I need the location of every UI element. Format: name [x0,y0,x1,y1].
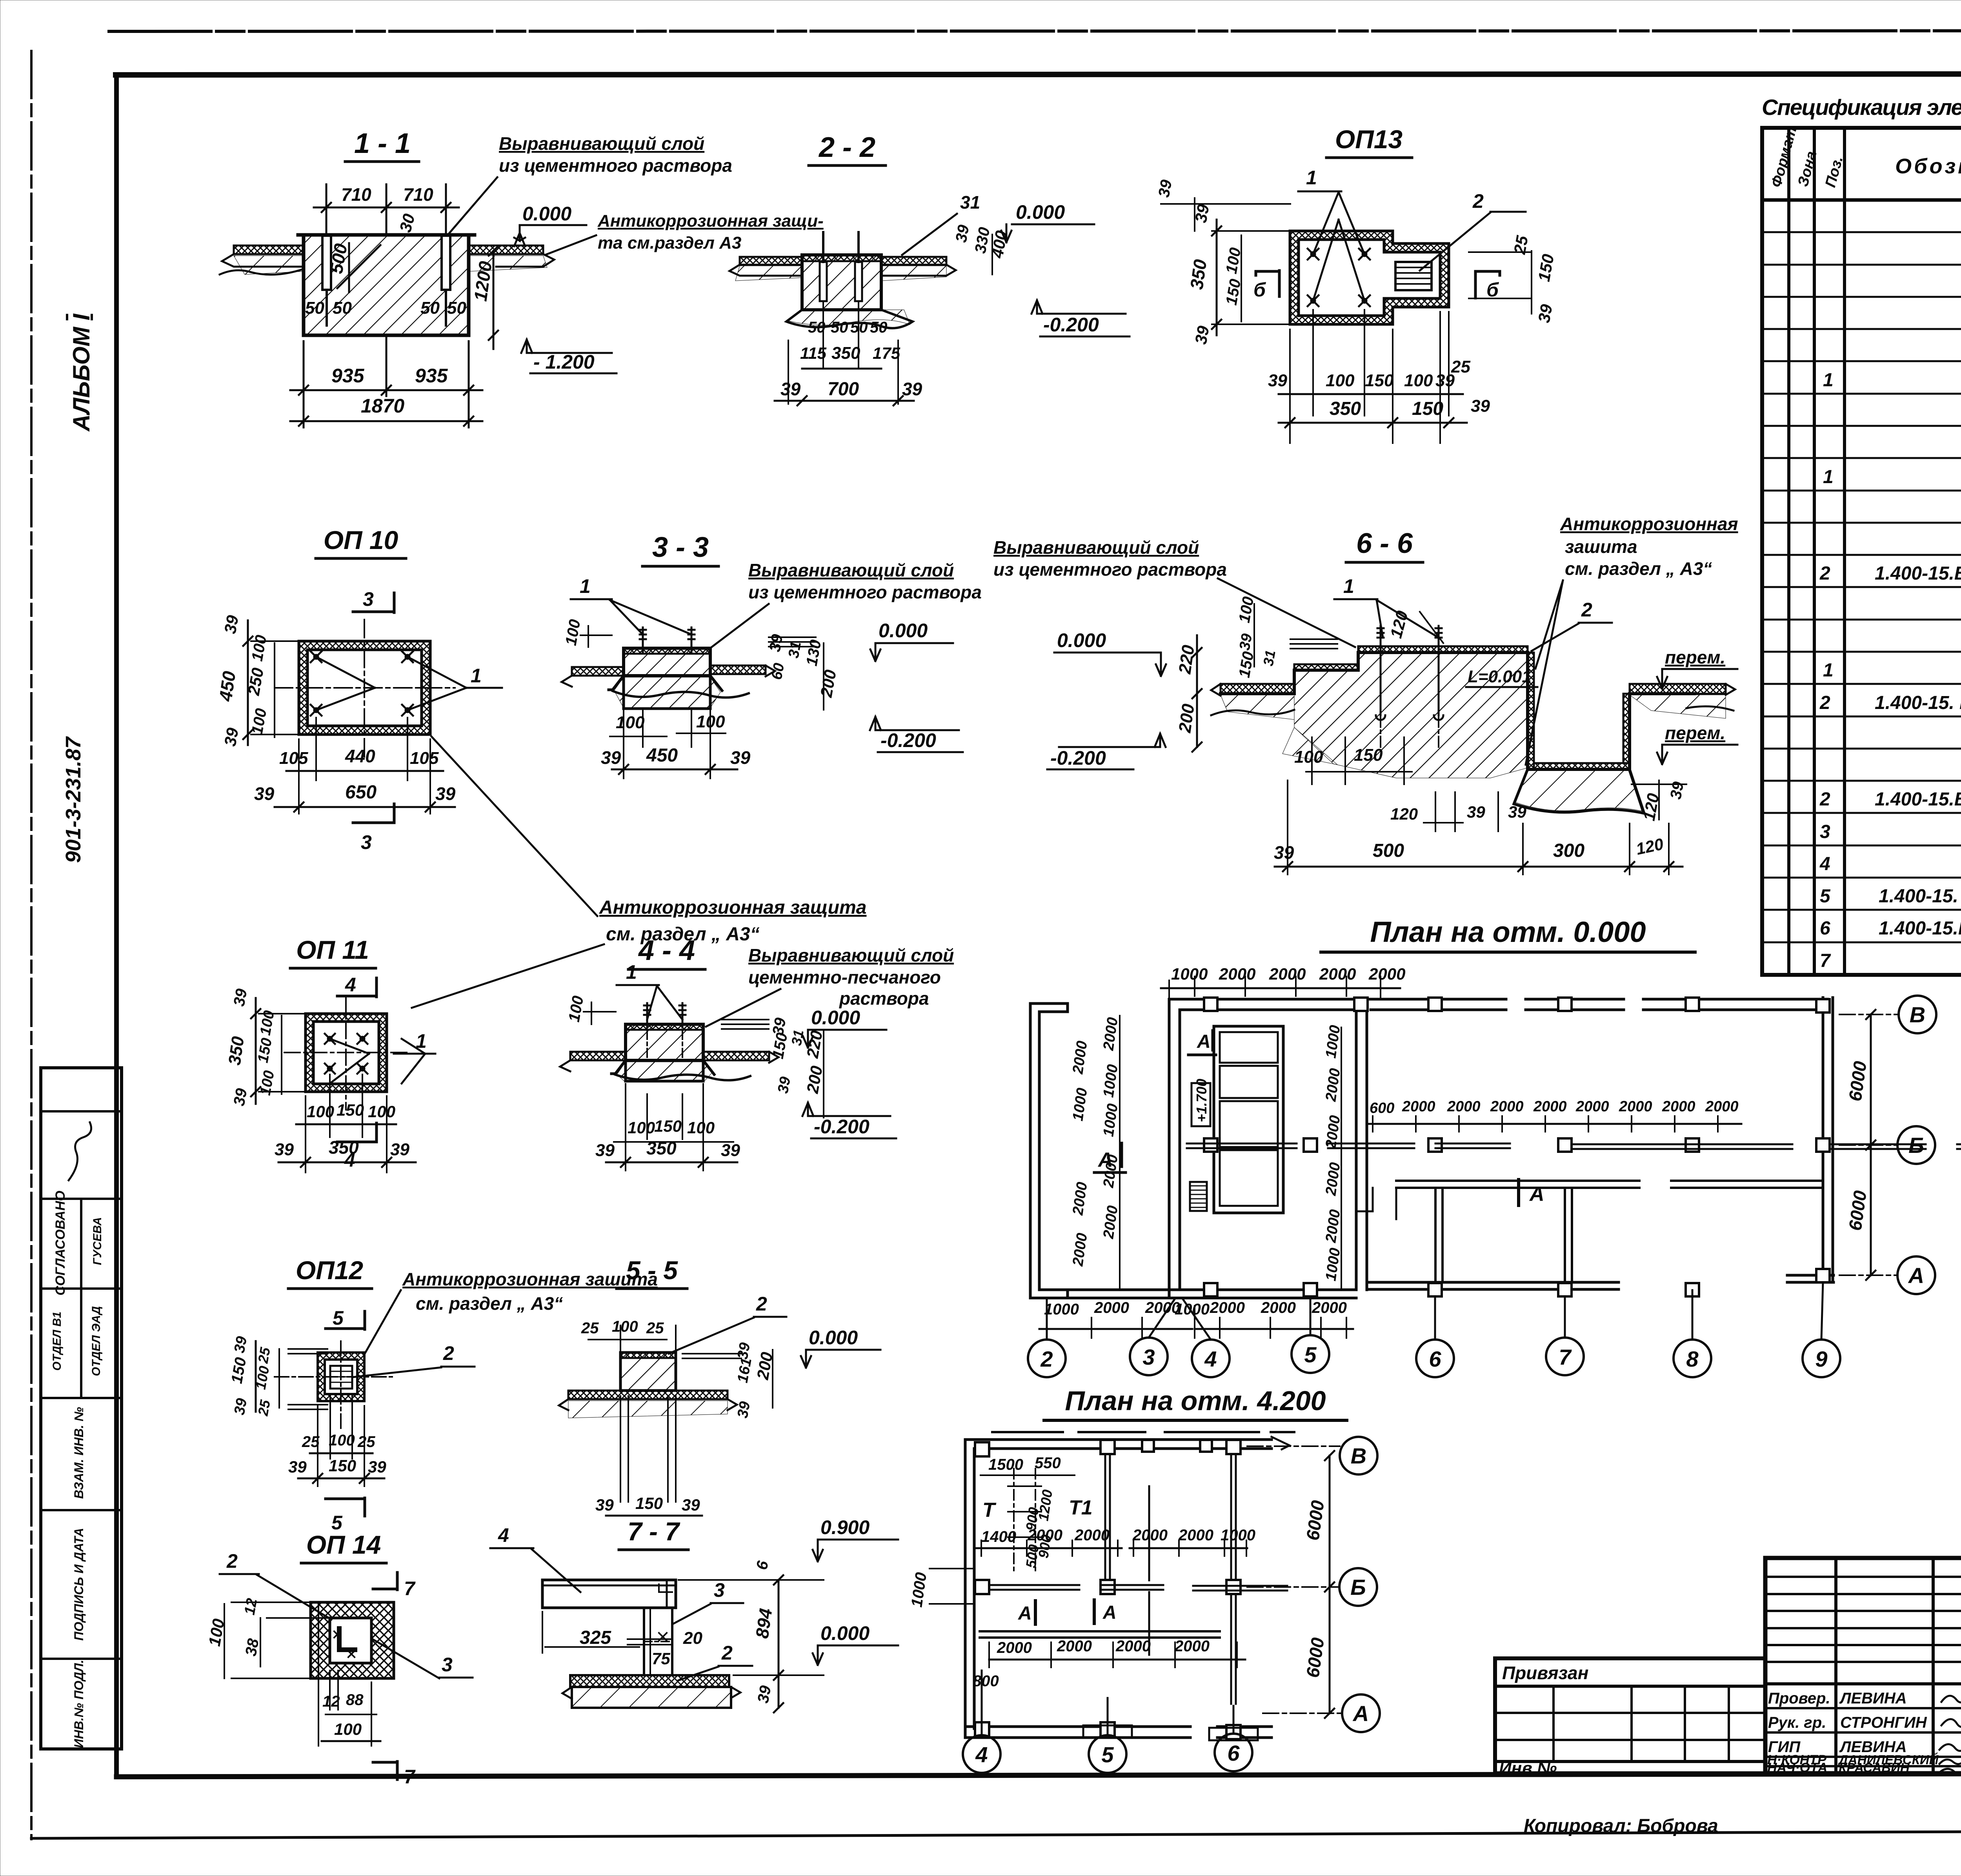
svg-text:5: 5 [333,1307,344,1329]
svg-text:2: 2 [226,1550,238,1572]
detail 2-2 anchor bolts [820,262,827,301]
svg-text:39: 39 [435,783,456,804]
svg-text:39: 39 [595,1141,615,1160]
svg-text:39: 39 [1535,303,1556,324]
svg-text:2000: 2000 [1094,1299,1129,1316]
svg-text:3: 3 [1820,822,1830,842]
detail OP11 left dims [255,998,257,1104]
plan 4.200 base plates bottom [1083,1725,1132,1738]
detail 5-5 pedestal [620,1352,676,1391]
plan 0.000 B-row partition right [1671,1180,1823,1182]
svg-text:935: 935 [331,365,365,387]
svg-text:1400: 1400 [981,1528,1016,1545]
svg-text:200: 200 [1175,702,1198,734]
svg-text:ОП13: ОП13 [1335,125,1403,154]
svg-text:СОГЛАСОВАНО: СОГЛАСОВАНО [53,1191,68,1295]
detail 4-4 pedestal [626,1024,703,1060]
plan 4.200 bottom wall [965,1725,1190,1728]
svg-text:1 - 1: 1 - 1 [354,128,411,159]
svg-text:1000: 1000 [1175,1301,1210,1318]
plan 0.000 columns row B [1204,1138,1830,1152]
detail OP11 leader 1 [330,1039,425,1083]
svg-text:0.900: 0.900 [820,1516,870,1538]
svg-text:Выравнивающий слой: Выравнивающий слой [499,133,704,154]
svg-text:4: 4 [498,1524,509,1546]
svg-text:-0.200: -0.200 [814,1116,870,1138]
svg-text:39: 39 [221,614,242,635]
svg-text:КРАСАВИН: КРАСАВИН [1839,1760,1910,1775]
detail 1-1 anchor bolt left [322,236,331,290]
svg-text:550: 550 [1035,1454,1061,1472]
svg-text:901-3-231.87: 901-3-231.87 [62,736,85,863]
svg-text:цементно-песчаного: цементно-песчаного [748,967,941,987]
svg-text:2000: 2000 [1132,1527,1168,1544]
svg-text:0.000: 0.000 [879,620,928,642]
svg-text:25: 25 [646,1320,664,1337]
svg-text:Провер.: Провер. [1768,1690,1830,1707]
svg-text:25: 25 [1451,357,1470,376]
svg-text:ОТДЕЛ В1: ОТДЕЛ В1 [51,1312,64,1371]
svg-text:из цементного раствора: из цементного раствора [499,155,732,176]
svg-text:39: 39 [775,1076,794,1095]
plan 0.000 inner vertical dim chains [1119,1016,1121,1290]
svg-text:2000: 2000 [1219,965,1255,983]
svg-text:2000: 2000 [1368,965,1405,983]
svg-text:Выравнивающий слой: Выравнивающий слой [748,560,954,580]
svg-text:105: 105 [410,749,439,768]
svg-text:2000: 2000 [1402,1098,1435,1115]
detail 6-6 ground breaks [1211,684,1294,715]
svg-text:100: 100 [1326,371,1355,390]
plan 4.200 partition wall [980,1630,1220,1632]
detail 6-6 pit lower body [1514,769,1644,813]
svg-text:0.000: 0.000 [522,203,571,225]
detail 6-6 mid dims 100 150 [1311,737,1313,784]
svg-text:38: 38 [242,1637,262,1657]
detail 4-4 floor slab right [703,1052,769,1060]
svg-text:5: 5 [1101,1742,1114,1767]
svg-text:2000: 2000 [1027,1527,1062,1544]
svg-text:ИНВ.№ ПОДЛ.: ИНВ.№ ПОДЛ. [72,1660,86,1748]
detail 2-2 pedestal [802,255,881,310]
svg-text:7: 7 [1559,1345,1572,1369]
plan 4.200 grid circles bottom [963,1735,1001,1773]
svg-text:А: А [1097,1149,1113,1171]
svg-text:ОП 11: ОП 11 [296,935,369,964]
svg-text:100: 100 [307,1102,334,1121]
svg-text:1000: 1000 [1221,1527,1255,1544]
svg-text:2000: 2000 [997,1639,1032,1656]
detail 4-4 dim 100 left [591,1002,592,1024]
detail 4-4 elevation -0.200 [802,1103,813,1116]
svg-text:39: 39 [231,987,251,1007]
detail 4-4 base block [611,1060,714,1081]
svg-text:1.400-15. В1. 120- 05: 1.400-15. В1. 120- 05 [1875,693,1961,713]
svg-text:450: 450 [215,670,239,703]
svg-text:А: А [1018,1603,1032,1624]
svg-text:0.000: 0.000 [1057,629,1106,651]
sheet edge bottom [31,1830,1961,1838]
svg-text:2000: 2000 [1619,1098,1652,1115]
plan 0.000 columns row A [1204,1269,1830,1296]
svg-text:В: В [1910,1002,1925,1027]
svg-text:39: 39 [902,379,922,399]
svg-text:650: 650 [345,782,377,803]
detail 3-3 bolts [640,627,646,652]
detail OP10 bottom dims [299,718,430,814]
svg-text:перем.: перем. [1665,647,1725,667]
svg-text:7: 7 [404,1578,416,1600]
detail 4-4 right rotated dims [722,1020,769,1029]
detail OP14 inner angle piece [338,1627,356,1651]
svg-text:Спецификация элементов фундаме: Спецификация элементов фундаментов под о… [1762,95,1961,120]
svg-text:8: 8 [1686,1347,1699,1371]
detail 1-1 dim 935 935 [290,337,482,427]
svg-text:1: 1 [580,575,591,597]
svg-text:39: 39 [231,1397,251,1416]
svg-text:Т1: Т1 [1069,1496,1093,1519]
svg-text:935: 935 [415,365,448,387]
leader from note to OP11 [412,944,604,1008]
svg-text:4: 4 [1204,1347,1217,1371]
plan 0.000 circle leaders [1047,1282,1823,1340]
svg-text:В: В [1351,1443,1366,1468]
svg-text:ЛЕВИНА: ЛЕВИНА [1839,1690,1907,1707]
detail 2-2 floor slab right [881,257,946,265]
plan 4.200 B-row beams [989,1585,1287,1586]
svg-text:АЛЬБОМ I: АЛЬБОМ I [68,313,95,432]
svg-text:Обозначение: Обозначение [1895,155,1961,178]
detail 6-6 bottom chain [1287,780,1288,874]
svg-text:2: 2 [1472,190,1484,212]
svg-text:300: 300 [1553,840,1584,861]
title block outer [1765,1558,1961,1773]
svg-text:2000: 2000 [1312,1299,1347,1316]
svg-text:39: 39 [755,1684,775,1704]
svg-text:2: 2 [1819,789,1830,810]
privyazan block [1495,1658,1765,1773]
svg-text:50: 50 [870,319,888,336]
svg-text:2000: 2000 [1057,1638,1092,1655]
svg-text:350: 350 [225,1035,248,1066]
svg-text:4 - 4: 4 - 4 [638,935,695,966]
detail OP12 section mark 5 bottom [326,1498,365,1516]
svg-text:СТРОНГИН: СТРОНГИН [1840,1714,1927,1731]
svg-text:2: 2 [756,1293,767,1315]
detail 6-6 left rotated dims [1196,635,1198,747]
svg-text:39: 39 [1274,842,1294,863]
svg-text:6 - 6: 6 - 6 [1356,528,1413,559]
svg-text:115: 115 [800,344,827,362]
svg-text:150: 150 [1412,398,1443,419]
svg-text:Б: Б [1908,1133,1924,1158]
svg-text:+1.700: +1.700 [1193,1079,1210,1122]
svg-text:100: 100 [687,1118,715,1137]
plan 0.000 left detached wall [1030,1003,1068,1298]
svg-text:Антикоррозионная защи-: Антикоррозионная защи- [597,211,824,231]
plan 4.200 inner stems [1105,1454,1110,1580]
svg-text:600: 600 [1370,1100,1394,1116]
spec rows [1819,204,1961,974]
svg-text:39: 39 [275,1140,294,1159]
svg-text:2: 2 [1040,1347,1053,1371]
svg-text:350: 350 [646,1138,677,1158]
svg-text:1: 1 [416,1030,427,1052]
svg-text:2000: 2000 [1662,1098,1695,1115]
detail 1-1 elevation -1.200 [521,340,532,353]
svg-text:25: 25 [255,1346,273,1365]
plan 0.000 right wall [1822,998,1825,1282]
svg-text:3: 3 [714,1579,725,1601]
detail OP12 centerlines [275,1376,392,1378]
detail OP12 left dims [255,1341,257,1412]
detail OP13 bolts [1308,249,1370,306]
detail 3-3 pedestal [624,648,710,676]
svg-text:2000: 2000 [1319,965,1356,983]
detail OP11 centerlines [284,1052,408,1053]
svg-text:39: 39 [1268,371,1287,390]
svg-text:100: 100 [334,1720,362,1738]
svg-text:6: 6 [1429,1347,1441,1371]
plan 0.000 grid centerline B row [1839,1144,1897,1146]
sheet edge left [30,51,33,1839]
svg-text:105: 105 [279,749,308,768]
detail 1-1 floor slab left [234,245,304,254]
svg-text:5 - 5: 5 - 5 [626,1256,678,1285]
svg-text:39: 39 [1508,803,1526,821]
plan 0.000 main left wall [1168,999,1171,1298]
detail 7-7 ground [572,1687,731,1708]
frame top [116,74,1961,75]
svg-text:2000: 2000 [1261,1299,1296,1316]
svg-text:1.400-15.В1.420-03: 1.400-15.В1.420-03 [1879,918,1961,939]
svg-text:39: 39 [368,1458,386,1476]
svg-text:100: 100 [616,713,645,732]
svg-text:710: 710 [341,184,371,205]
svg-text:31: 31 [960,192,980,213]
svg-text:500: 500 [1373,840,1404,861]
svg-text:350: 350 [1186,258,1210,291]
detail 3-3 bottom dims [642,710,644,747]
svg-text:ВЗАМ. ИНВ. №: ВЗАМ. ИНВ. № [72,1407,86,1499]
plan 0.000 bottom wall [1039,1275,1834,1298]
svg-text:2000: 2000 [1174,1638,1210,1655]
detail 2-2 base flare [786,310,913,328]
spec table grid [1762,128,1961,975]
plan 0.000 top wall left part [1169,998,1371,1001]
svg-text:2 - 2: 2 - 2 [818,132,875,163]
detail OP10 walls [299,641,430,734]
svg-text:см. раздел „ А3“: см. раздел „ А3“ [416,1293,563,1314]
svg-text:39: 39 [682,1496,700,1514]
svg-text:39: 39 [1471,396,1490,416]
svg-text:1: 1 [1823,467,1834,487]
svg-text:7: 7 [1820,951,1831,971]
detail 6-6 main section body [1221,653,1694,769]
svg-text:из цементного раствора: из цементного раствора [748,582,982,602]
svg-text:Антикоррозионная: Антикоррозионная [1560,514,1738,534]
svg-text:Б: Б [1350,1575,1366,1600]
svg-text:1: 1 [1306,167,1317,189]
detail 7-7 right dims [778,1580,780,1708]
svg-text:50: 50 [447,298,466,318]
detail OP10 leader 1 [316,657,466,710]
svg-text:Рук. гр.: Рук. гр. [1768,1714,1826,1731]
detail OP14 section mark 7 bottom [373,1761,397,1780]
left stamp column [41,1068,122,1749]
svg-text:Антикоррозионная зашита: Антикоррозионная зашита [402,1269,658,1289]
svg-text:ОП12: ОП12 [296,1256,364,1285]
svg-text:2000: 2000 [1115,1638,1151,1655]
svg-text:План на отм. 4.200: План на отм. 4.200 [1065,1385,1326,1416]
svg-text:1000: 1000 [1171,965,1208,983]
svg-text:39: 39 [1237,633,1256,652]
svg-text:7: 7 [404,1766,416,1788]
svg-text:1.400-15.В1. 120-05: 1.400-15.В1. 120-05 [1875,563,1961,584]
svg-text:ОП 10: ОП 10 [324,525,398,554]
detail OP10 centerlines [275,687,455,689]
svg-text:1: 1 [471,665,482,687]
svg-text:39: 39 [766,633,786,653]
svg-text:800: 800 [973,1672,999,1690]
leader from OP10 to central anticorrosion note [431,736,597,916]
svg-text:50: 50 [831,319,848,336]
svg-text:39: 39 [231,1335,251,1354]
svg-text:6: 6 [1820,918,1830,939]
svg-text:31: 31 [1260,649,1279,667]
svg-text:1.400-15. В1. 120-17: 1.400-15. В1. 120-17 [1879,886,1961,907]
svg-text:0.000: 0.000 [811,1007,860,1029]
detail 6-6 bolts [1377,626,1384,650]
svg-text:см. раздел „ А3“: см. раздел „ А3“ [1565,558,1712,579]
svg-text:150: 150 [654,1117,682,1135]
svg-text:2000: 2000 [1575,1098,1609,1115]
plan 4.200 outer walls [964,1440,967,1738]
detail OP13 bottom dims [1290,310,1449,443]
plan 0.000 row circles [1899,996,1936,1033]
svg-text:39: 39 [735,1400,754,1420]
svg-text:та см.раздел А3: та см.раздел А3 [598,233,741,253]
svg-text:39: 39 [601,747,621,768]
svg-text:39: 39 [231,1087,251,1107]
svg-text:440: 440 [345,746,375,766]
detail OP12 walls [318,1352,364,1401]
svg-text:зашита: зашита [1565,536,1637,557]
plan 0.000 elevation +1.700 box [1192,1083,1210,1126]
svg-text:План на отм. 0.000: План на отм. 0.000 [1370,916,1646,948]
svg-text:3 - 3: 3 - 3 [652,532,709,563]
svg-text:39: 39 [1155,178,1175,198]
svg-text:150: 150 [635,1494,663,1512]
plan 0.000 columns row V [1204,998,1830,1013]
svg-text:25: 25 [357,1433,375,1451]
detail OP10 bolts [311,651,413,716]
svg-text:- 1.200: - 1.200 [533,351,595,373]
frame bottom [116,1773,1961,1777]
svg-text:А: А [1529,1183,1544,1205]
svg-text:1: 1 [626,961,637,983]
svg-text:2000: 2000 [1178,1527,1213,1544]
svg-text:9: 9 [1815,1347,1827,1371]
svg-text:1870: 1870 [361,395,404,417]
detail 1-1 floor slab right [469,245,543,254]
svg-text:39: 39 [1467,803,1485,821]
svg-text:0.000: 0.000 [809,1327,858,1349]
svg-text:20: 20 [683,1629,702,1648]
svg-text:6: 6 [1227,1741,1240,1765]
svg-text:А: А [1352,1701,1369,1726]
svg-text:2000: 2000 [1447,1098,1481,1115]
plan 0.000 top wall right segments [1371,999,1828,1010]
svg-text:2: 2 [1819,563,1830,584]
svg-text:2: 2 [443,1342,454,1364]
svg-text:ГУСЕВА: ГУСЕВА [91,1217,104,1265]
svg-text:Т: Т [982,1499,997,1522]
detail OP12 embedded plate 2 [330,1366,352,1389]
detail OP14 section mark 7 top [373,1572,397,1590]
svg-text:700: 700 [828,379,859,400]
svg-text:39: 39 [221,726,242,748]
detail OP13 left ext dim lines [1194,198,1195,231]
svg-text:2000: 2000 [1533,1098,1567,1115]
detail 1-1 dim 1200 [493,251,495,349]
svg-text:5: 5 [1304,1342,1317,1367]
svg-text:L=0.001: L=0.001 [1468,667,1532,686]
svg-text:0.000: 0.000 [820,1622,870,1644]
svg-text:25: 25 [255,1398,273,1418]
svg-text:2000: 2000 [1269,965,1306,983]
svg-text:Привязан: Привязан [1502,1663,1588,1683]
svg-text:60: 60 [769,662,788,681]
svg-text:б: б [1253,279,1266,301]
svg-text:325: 325 [580,1627,611,1648]
plan 0.000 mid vertical wall [1355,1010,1358,1290]
detail 7-7 vertical channel [644,1608,672,1675]
svg-text:1000: 1000 [1044,1301,1079,1318]
svg-text:5: 5 [1820,886,1831,907]
svg-text:7 - 7: 7 - 7 [628,1517,680,1546]
svg-text:39: 39 [780,379,801,399]
plan 0.000 equipment block [1214,1026,1283,1213]
svg-text:Инв.№: Инв.№ [1499,1759,1557,1778]
svg-text:1: 1 [1343,575,1354,597]
detail 1-1 foundation block [304,235,469,335]
detail OP12 bottom dims [318,1396,364,1486]
svg-text:350: 350 [1330,398,1361,419]
svg-text:2: 2 [1819,693,1830,713]
svg-text:100: 100 [368,1102,395,1121]
svg-text:4: 4 [975,1742,988,1767]
svg-text:150: 150 [1365,371,1394,390]
detail 3-3 dim 100 top-left [588,626,589,647]
detail 3-3 floor slab right [710,665,766,674]
svg-text:39: 39 [254,783,275,804]
svg-text:710: 710 [403,184,433,205]
svg-text:3: 3 [442,1654,453,1676]
svg-text:100: 100 [1404,371,1433,390]
svg-text:12: 12 [242,1597,261,1616]
plan 4.200 columns [975,1440,1241,1739]
svg-text:1: 1 [1823,660,1834,681]
svg-text:4: 4 [1819,854,1830,874]
detail 4-4 bolts [644,1003,650,1027]
frame left [114,75,119,1776]
detail OP13 embedded plate 2 [1395,262,1432,290]
plan 0.000 dim 6000 right [1870,1014,1872,1275]
svg-text:3: 3 [363,588,374,610]
detail OP10 section marks 3 [353,593,394,613]
detail 7-7 channel beam [542,1580,676,1608]
